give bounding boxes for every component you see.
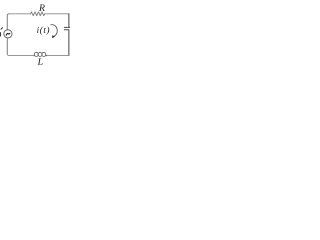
wire left vertical source to top corner — [7, 14, 9, 30]
label i(t) — [37, 27, 49, 35]
wire right vertical capacitor to bottom corner — [68, 30, 70, 56]
source V1 circle — [4, 30, 12, 38]
mesh current arrowhead — [52, 35, 55, 38]
cropped label fragment bar at left edge — [0, 32, 2, 36]
label R — [39, 4, 45, 10]
wire bottom horizontal inductor to left corner — [7, 54, 33, 56]
wire bottom horizontal corner to inductor — [47, 55, 69, 57]
label L — [37, 58, 42, 64]
wire left vertical up to source bottom — [6, 38, 8, 54]
wire top horizontal to resistor — [9, 13, 31, 15]
wire resistor to top-right corner — [45, 13, 69, 15]
source sine symbol — [6, 33, 10, 35]
wire right vertical down to capacitor — [68, 14, 70, 27]
resistor R — [31, 12, 45, 16]
capacitor top plate — [64, 26, 70, 28]
inductor L coil — [33, 52, 46, 56]
capacitor bottom plate — [64, 29, 68, 31]
mesh current arrow i(t) arc — [51, 25, 58, 37]
cropped label fragment dot at left edge — [1, 28, 3, 29]
